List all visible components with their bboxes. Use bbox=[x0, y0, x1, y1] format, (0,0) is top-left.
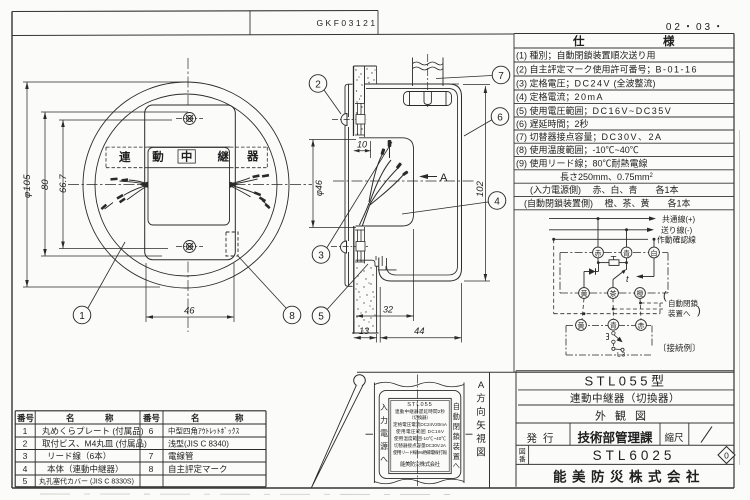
parts rows bbox=[23, 426, 240, 487]
revision diamond bbox=[718, 447, 735, 464]
bottom strip separator line bbox=[357, 371, 734, 373]
connection example box (dash-dot) bbox=[566, 326, 652, 356]
box around 中 bbox=[178, 150, 195, 163]
center line vertical bbox=[187, 58, 189, 332]
diode D1 bbox=[589, 268, 596, 274]
svg-text:番号: 番号 bbox=[16, 413, 35, 423]
svg-text:動: 動 bbox=[152, 150, 164, 164]
svg-text:白: 白 bbox=[651, 248, 658, 257]
wire relay coil to blue node bbox=[619, 262, 627, 264]
wire actuate arrow line bbox=[639, 276, 654, 278]
junction dot confirm line at white bbox=[653, 238, 656, 241]
svg-text:名: 名 bbox=[66, 413, 75, 423]
svg-text:継: 継 bbox=[218, 150, 230, 164]
wall lower outline bbox=[352, 226, 379, 333]
example terminal yellow bbox=[576, 320, 587, 331]
svg-text:青: 青 bbox=[623, 248, 630, 257]
svg-text:中: 中 bbox=[181, 149, 193, 163]
svg-text:能美防災株式会社: 能美防災株式会社 bbox=[553, 469, 705, 485]
svg-text:茶: 茶 bbox=[610, 289, 617, 298]
lead wires left bbox=[105, 180, 149, 209]
conduit (item 7) bbox=[413, 58, 444, 87]
svg-text:へ: へ bbox=[453, 461, 460, 470]
svg-text:入: 入 bbox=[380, 403, 388, 412]
svg-text:80: 80 bbox=[40, 179, 51, 190]
outer border top bbox=[12, 11, 378, 12]
junction dots on dashed links bbox=[639, 302, 642, 305]
bracket top bbox=[355, 99, 365, 137]
svg-text:6: 6 bbox=[497, 113, 503, 124]
pointer needle bbox=[354, 375, 366, 387]
dimension 66.7 bbox=[59, 120, 172, 249]
svg-text:(6) 遅延時間；2秒: (6) 遅延時間；2秒 bbox=[516, 118, 589, 129]
wall upper outline bbox=[354, 66, 377, 136]
svg-text:5: 5 bbox=[23, 476, 28, 486]
svg-text:6: 6 bbox=[149, 426, 154, 436]
svg-text:(8) 使用温度範囲；-10℃~40℃: (8) 使用温度範囲；-10℃~40℃ bbox=[516, 144, 639, 155]
svg-text:番: 番 bbox=[519, 456, 526, 464]
svg-text:（切換器）: （切換器） bbox=[409, 414, 431, 421]
terminal circles row1 bbox=[576, 247, 660, 330]
dimension phi105 bbox=[23, 82, 186, 287]
wall plate (front blind plate) bbox=[345, 84, 353, 286]
svg-text:自: 自 bbox=[453, 402, 460, 411]
junction dot send line bbox=[625, 228, 628, 231]
svg-text:1: 1 bbox=[23, 426, 28, 436]
svg-text:(3) 定格電圧；DC24V (全波整流): (3) 定格電圧；DC24V (全波整流) bbox=[516, 78, 656, 89]
arrowhead actuate bbox=[636, 274, 643, 278]
svg-text:φ105: φ105 bbox=[22, 174, 33, 198]
svg-text:3: 3 bbox=[23, 451, 28, 461]
label center line bbox=[417, 375, 419, 487]
svg-text:3: 3 bbox=[318, 251, 324, 262]
svg-text:定格電圧電流DC24V20mA: 定格電圧電流DC24V20mA bbox=[393, 421, 448, 428]
mounting screw top (item 2) bbox=[341, 114, 347, 126]
outer border left bbox=[11, 12, 13, 489]
dimension 46 bottom bbox=[146, 263, 234, 322]
svg-text:丸めくらプレート (付属品): 丸めくらプレート (付属品) bbox=[42, 426, 144, 436]
spec table grid bbox=[514, 34, 734, 373]
svg-text:黄: 黄 bbox=[581, 289, 588, 298]
recess in wall (hole) bbox=[356, 138, 414, 226]
outer border bottom bbox=[12, 487, 734, 489]
arrowhead send line bbox=[647, 228, 654, 232]
vertical text input power bbox=[380, 403, 388, 464]
dimension 80 bbox=[41, 112, 188, 256]
svg-text:02・03・: 02・03・ bbox=[666, 22, 726, 33]
wire operation-confirm line bbox=[554, 238, 648, 240]
svg-text:装置へ: 装置へ bbox=[668, 308, 691, 318]
name plate band visible part bbox=[147, 147, 230, 168]
svg-text:外観図: 外観図 bbox=[595, 409, 655, 423]
svg-text:13: 13 bbox=[359, 326, 369, 336]
svg-text:作動確認線: 作動確認線 bbox=[657, 235, 696, 245]
svg-text:浅型(JIS C 8340): 浅型(JIS C 8340) bbox=[168, 439, 229, 449]
screw bottom bbox=[184, 241, 196, 253]
wire drop from send line to blue terminal bbox=[626, 230, 628, 247]
balloon 8 bbox=[283, 306, 301, 324]
wire drop from common line to red terminal bbox=[597, 219, 599, 248]
mounting screw bottom (item 2) bbox=[341, 241, 347, 253]
svg-text:橙: 橙 bbox=[637, 289, 644, 298]
svg-text:〔接続例〕: 〔接続例〕 bbox=[658, 343, 701, 353]
svg-text:長さ250mm、0.75mm2: 長さ250mm、0.75mm2 bbox=[560, 172, 654, 182]
example terminal blue bbox=[608, 319, 619, 330]
svg-text:本体（連動中継器）: 本体（連動中継器） bbox=[47, 464, 124, 474]
relay polarity tick bbox=[611, 256, 616, 259]
phantom marks on body edges bbox=[370, 84, 459, 281]
svg-text:へ: へ bbox=[380, 455, 388, 464]
dimension 10 bbox=[354, 141, 371, 158]
svg-text:置: 置 bbox=[453, 452, 460, 461]
lead wires right bbox=[230, 178, 270, 207]
svg-text:102: 102 bbox=[475, 180, 486, 197]
dimension 32 bbox=[354, 229, 414, 334]
balloon 1 bbox=[73, 306, 91, 324]
svg-text:称: 称 bbox=[235, 413, 244, 423]
relay body window bbox=[148, 147, 230, 225]
junction dot blue node bbox=[625, 261, 628, 264]
svg-text:送り線(-): 送り線(-) bbox=[661, 225, 693, 235]
bracket bottom bbox=[355, 227, 365, 264]
svg-text:44: 44 bbox=[414, 326, 425, 337]
svg-text:7: 7 bbox=[149, 451, 154, 461]
svg-text:源: 源 bbox=[380, 442, 388, 451]
svg-text:図: 図 bbox=[519, 448, 526, 456]
example terminal red bbox=[636, 320, 647, 331]
switch blade t bbox=[613, 271, 625, 280]
svg-text:発行: 発行 bbox=[527, 432, 560, 445]
relay body outer outline bbox=[365, 84, 462, 281]
wire switch pivot from brown terminal bbox=[612, 280, 614, 288]
svg-text:32: 32 bbox=[383, 305, 393, 315]
svg-text:2: 2 bbox=[315, 80, 321, 91]
dashed link left vertical bbox=[554, 239, 663, 319]
svg-text:(: ( bbox=[663, 290, 667, 302]
outer circle (plate edge) bbox=[83, 82, 289, 288]
lead wires in recess (item 3) bbox=[360, 144, 405, 226]
svg-text:(入力電源側) 赤、白、青 各1本: (入力電源側) 赤、白、青 各1本 bbox=[530, 184, 679, 195]
screw top bbox=[184, 113, 196, 125]
svg-text:8: 8 bbox=[149, 464, 154, 474]
svg-text:2: 2 bbox=[23, 439, 28, 449]
svg-text:STL055型: STL055型 bbox=[584, 374, 667, 389]
parts table header bbox=[16, 413, 244, 423]
side tick marks bbox=[366, 433, 374, 435]
cover plate rectangle bbox=[145, 105, 236, 260]
svg-text:L3: L3 bbox=[617, 352, 626, 359]
wire node to relay coil bbox=[598, 262, 609, 264]
wire terminals left bbox=[101, 177, 129, 209]
svg-text:番号: 番号 bbox=[142, 413, 161, 423]
svg-text:称: 称 bbox=[105, 413, 114, 423]
certification mark area (dashed) bbox=[226, 232, 238, 256]
svg-text:取付ビス、M4丸皿 (付属品): 取付ビス、M4丸皿 (付属品) bbox=[42, 439, 147, 449]
wire common line (+) bbox=[549, 218, 652, 220]
svg-text:リード線（6本）: リード線（6本） bbox=[47, 451, 111, 461]
svg-text:STL055: STL055 bbox=[407, 402, 433, 408]
svg-text:7: 7 bbox=[498, 71, 504, 82]
svg-text:電: 電 bbox=[380, 429, 388, 438]
svg-text:自動閉鎖: 自動閉鎖 bbox=[668, 298, 698, 308]
wire terminals right bbox=[252, 174, 270, 209]
label area left divider bbox=[489, 372, 491, 488]
svg-text:(9) 使用リード線；80℃耐熱電線: (9) 使用リード線；80℃耐熱電線 bbox=[516, 158, 648, 169]
wire blue node to switch contact bbox=[626, 263, 628, 270]
section center line bbox=[333, 180, 476, 182]
wire red terminal to relay node bbox=[597, 258, 599, 263]
slash bbox=[701, 427, 712, 443]
label outer torn edges bbox=[374, 382, 464, 484]
body left face bbox=[364, 84, 366, 99]
svg-text:φ46: φ46 bbox=[314, 180, 324, 196]
svg-text:(自動閉鎖装置側) 橙、茶、黄 各1本: (自動閉鎖装置側) 橙、茶、黄 各1本 bbox=[524, 198, 691, 209]
wire diode cathode lead bbox=[596, 271, 599, 273]
terminal white bbox=[649, 247, 660, 258]
svg-text:閉: 閉 bbox=[453, 422, 460, 431]
terminal red bbox=[593, 247, 604, 258]
svg-text:使用リード線 5%絶縁電線 打報: 使用リード線 5%絶縁電線 打報 bbox=[393, 449, 447, 456]
svg-text:装: 装 bbox=[453, 442, 460, 451]
balloon 4 bbox=[488, 192, 506, 210]
svg-text:t: t bbox=[626, 274, 629, 284]
wire cathode up to relay node bbox=[598, 263, 600, 272]
terminal yellow bbox=[579, 288, 590, 299]
terminal orange bbox=[635, 288, 646, 299]
svg-text:赤: 赤 bbox=[595, 249, 602, 257]
svg-text:46: 46 bbox=[184, 306, 195, 317]
svg-text:使用電圧範囲 DC16V: 使用電圧範囲 DC16V bbox=[396, 428, 445, 435]
balloon 7 bbox=[492, 66, 510, 84]
wire drop from confirm line to white terminal bbox=[653, 239, 655, 247]
balloon 6 bbox=[491, 108, 509, 126]
inner circle bbox=[95, 94, 277, 276]
svg-text:丸孔塞代カバー (JIS C 8330S): 丸孔塞代カバー (JIS C 8330S) bbox=[39, 477, 134, 486]
scanner edge shadow bbox=[40, 493, 450, 496]
svg-text:A: A bbox=[440, 172, 448, 184]
svg-text:視: 視 bbox=[476, 433, 486, 445]
name plate band hidden left (dashed) bbox=[106, 147, 267, 168]
balloon 2 bbox=[309, 75, 327, 93]
terminal blue bbox=[621, 247, 632, 258]
svg-text:向: 向 bbox=[476, 406, 486, 418]
svg-text:能美防災株式会社: 能美防災株式会社 bbox=[400, 460, 441, 468]
junction dot common line bbox=[597, 217, 600, 220]
spec rows text bbox=[516, 50, 698, 209]
svg-text:鎖: 鎖 bbox=[453, 432, 460, 441]
junction dot relay node bbox=[597, 261, 600, 264]
wire diode anode lead bbox=[584, 271, 589, 273]
dimension 13 and 44 bbox=[354, 283, 462, 343]
wire white terminal down bbox=[653, 258, 655, 277]
svg-text:4: 4 bbox=[23, 464, 28, 474]
svg-text:(5) 使用電圧範囲；DC16V~DC35V: (5) 使用電圧範囲；DC16V~DC35V bbox=[516, 105, 672, 116]
svg-text:図: 図 bbox=[476, 448, 486, 459]
arrowhead common line bbox=[649, 216, 656, 220]
conduit lock nut bbox=[404, 92, 452, 106]
svg-text:黄: 黄 bbox=[578, 321, 585, 330]
wall lower stipple bbox=[355, 267, 375, 331]
svg-text:(2) 自主評定マーク使用許可番号；B-01-16: (2) 自主評定マーク使用許可番号；B-01-16 bbox=[516, 64, 698, 75]
label inner rounded border bbox=[379, 390, 461, 478]
svg-text:連動中継器（切換器）: 連動中継器（切換器） bbox=[570, 392, 680, 405]
view direction arrow A bbox=[421, 176, 437, 178]
junction dot confirm line left end bbox=[552, 238, 555, 241]
outer border right bbox=[733, 34, 735, 489]
svg-text:電線管: 電線管 bbox=[168, 451, 194, 461]
drawing number box divider bbox=[249, 11, 251, 35]
svg-text:連: 連 bbox=[119, 150, 131, 164]
example switch under blue bbox=[606, 332, 624, 352]
wire send line (-) bbox=[549, 229, 650, 231]
svg-text:青: 青 bbox=[610, 321, 617, 330]
sticker double border bbox=[389, 398, 451, 473]
round-hole cover (item 5) bbox=[356, 256, 397, 270]
svg-text:5: 5 bbox=[318, 312, 324, 323]
svg-text:赤: 赤 bbox=[638, 322, 645, 330]
dimension phi46 bbox=[309, 140, 356, 228]
svg-text:STL6025: STL6025 bbox=[593, 448, 676, 463]
wire blue terminal down bbox=[626, 258, 628, 263]
relay coil K bbox=[609, 260, 619, 266]
svg-text:仕: 仕 bbox=[572, 34, 585, 48]
svg-text:(7) 切替器接点容量；DC30V、2A: (7) 切替器接点容量；DC30V、2A bbox=[516, 131, 663, 142]
svg-text:8: 8 bbox=[289, 311, 295, 322]
balloon 5 bbox=[312, 307, 330, 325]
svg-text:GKF03121: GKF03121 bbox=[316, 18, 377, 28]
drawing number box right edge bbox=[377, 11, 379, 35]
label 連動中継器 bbox=[119, 149, 259, 164]
svg-text:動: 動 bbox=[453, 412, 460, 421]
sticker tiny text bbox=[393, 402, 448, 468]
svg-text:10: 10 bbox=[357, 140, 367, 150]
relay body inner outline bbox=[366, 88, 458, 275]
svg-text:(4) 定格電流；20mA: (4) 定格電流；20mA bbox=[516, 91, 604, 102]
dimension 102 bbox=[463, 85, 490, 282]
svg-text:方: 方 bbox=[476, 393, 486, 405]
svg-text:(1) 種別；自動閉鎖装置順次送り用: (1) 種別；自動閉鎖装置順次送り用 bbox=[516, 50, 656, 61]
wall upper stipple bbox=[355, 68, 375, 134]
svg-text:共通線(+): 共通線(+) bbox=[662, 214, 696, 224]
svg-text:使用温度範囲-10℃~40℃: 使用温度範囲-10℃~40℃ bbox=[394, 435, 446, 442]
svg-text:自主評定マーク: 自主評定マーク bbox=[168, 464, 228, 474]
svg-text:力: 力 bbox=[380, 415, 388, 425]
svg-text:中型四角ｱｳﾄﾚｯﾄﾎﾞｯｸｽ: 中型四角ｱｳﾄﾚｯﾄﾎﾞｯｸｽ bbox=[168, 426, 239, 436]
svg-text:縮尺: 縮尺 bbox=[664, 432, 684, 444]
svg-text:名: 名 bbox=[191, 413, 200, 423]
center line horizontal bbox=[68, 184, 312, 186]
balloon 3 bbox=[312, 246, 330, 264]
svg-text:66.7: 66.7 bbox=[58, 174, 69, 193]
svg-text:4: 4 bbox=[494, 197, 500, 208]
svg-text:0: 0 bbox=[724, 450, 729, 460]
vertical text auto closing device bbox=[453, 402, 460, 470]
svg-text:技術部管理課: 技術部管理課 bbox=[577, 430, 653, 445]
wire yellow terminal up to diode bbox=[583, 272, 585, 288]
svg-text:連動中継器遅延時間2秒: 連動中継器遅延時間2秒 bbox=[395, 408, 445, 415]
svg-text:): ) bbox=[697, 305, 701, 317]
svg-text:A: A bbox=[478, 380, 485, 391]
svg-text:切替器接点容量DC30V.2A: 切替器接点容量DC30V.2A bbox=[394, 442, 447, 449]
svg-text:器: 器 bbox=[246, 150, 259, 163]
vertical caption A arrow view bbox=[476, 380, 486, 459]
terminal brown bbox=[608, 288, 619, 299]
svg-text:矢: 矢 bbox=[476, 420, 486, 432]
phantom enclosure box (dash-dot) bbox=[560, 253, 668, 293]
svg-text:1: 1 bbox=[79, 311, 85, 322]
svg-text:様: 様 bbox=[663, 34, 675, 48]
header strip bottom line bbox=[12, 34, 514, 36]
